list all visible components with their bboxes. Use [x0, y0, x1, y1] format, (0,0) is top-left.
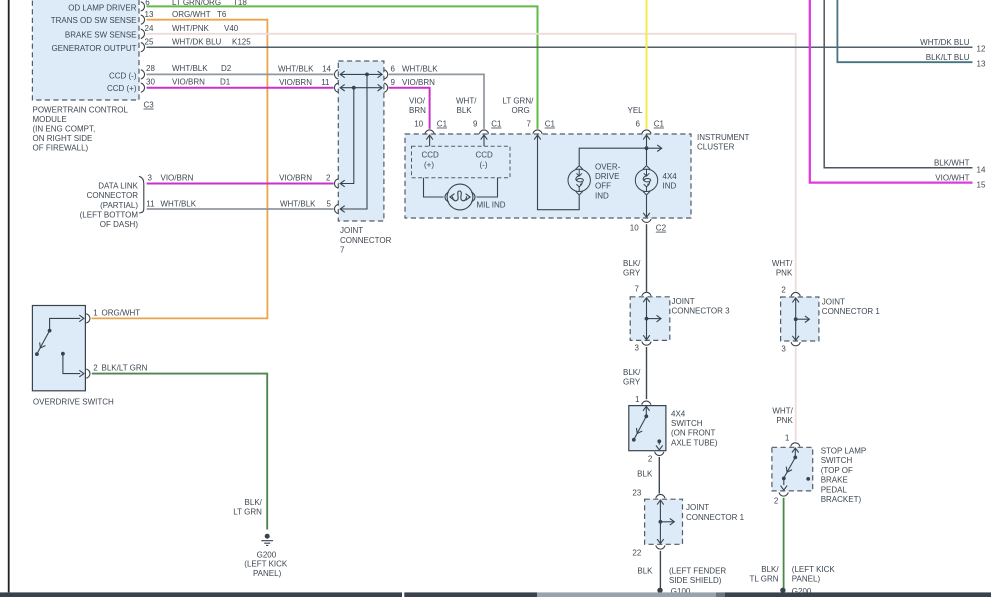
JC1 middle pin 22	[632, 545, 665, 557]
G100 caption	[669, 566, 726, 585]
wire labels row pin 6 LT GRN/ORG T18	[145, 0, 247, 7]
cluster internal lead pin 10 to CCD(+)	[429, 135, 431, 146]
JC3 caption	[672, 297, 731, 316]
wire YEL from top to cluster pin 6	[646, 0, 648, 129]
svg-text:ORG/WHT: ORG/WHT	[172, 10, 211, 19]
svg-text:PNK: PNK	[776, 268, 793, 277]
PCM connector C3 label	[144, 101, 155, 110]
svg-text:14: 14	[322, 64, 331, 73]
svg-text:(LEFT FENDER: (LEFT FENDER	[669, 566, 726, 575]
JC3 internals	[643, 298, 661, 340]
svg-text:SWITCH: SWITCH	[821, 456, 853, 465]
svg-text:C2: C2	[656, 224, 667, 233]
JC3 pin 7	[635, 285, 652, 296]
svg-text:CCD (+): CCD (+)	[107, 84, 137, 93]
cluster internal branch yel node	[579, 145, 662, 165]
svg-text:11: 11	[146, 199, 155, 208]
svg-text:VIO/: VIO/	[409, 96, 426, 105]
wire BLK/GRY cluster to JC3 pin 7	[646, 224, 648, 292]
wire VIO/BRN DLC pin 3 to JC7 pin 2	[147, 183, 334, 185]
svg-text:10: 10	[414, 120, 423, 129]
svg-text:WHT/BLK: WHT/BLK	[402, 64, 438, 73]
wire ORG/WHT from PCM pin 13 to overdrive switch pin 1	[92, 20, 268, 319]
svg-text:OF FIREWALL): OF FIREWALL)	[33, 144, 89, 153]
wire WHT/BLK from PCM pin 28 to joint connector 7 pin 14	[147, 73, 334, 75]
svg-text:6: 6	[636, 120, 641, 129]
wire label BLK/GRY lower	[623, 368, 641, 386]
JC1 right pin 2	[781, 285, 800, 296]
svg-text:WHT/BLK: WHT/BLK	[172, 64, 208, 73]
overdrive switch internals	[35, 315, 84, 377]
svg-text:OF DASH): OF DASH)	[100, 220, 139, 229]
svg-text:BLK: BLK	[637, 566, 653, 575]
wire WHT/PNK from PCM pin 24 to joint connector 1 pin 2	[147, 34, 796, 292]
svg-text:BLK/LT GRN: BLK/LT GRN	[102, 364, 148, 373]
overdrive switch caption	[33, 398, 114, 407]
svg-text:2: 2	[781, 285, 786, 294]
svg-text:OFF: OFF	[595, 182, 611, 191]
JC7 internal bus WHT/BLK pins 14-6	[340, 71, 382, 78]
svg-text:VIO/BRN: VIO/BRN	[279, 78, 312, 87]
svg-text:6: 6	[391, 64, 396, 73]
svg-text:WHT/: WHT/	[456, 96, 477, 105]
svg-text:PEDAL: PEDAL	[821, 485, 848, 494]
svg-text:7: 7	[635, 285, 640, 294]
svg-text:15: 15	[977, 180, 986, 189]
svg-text:CCD: CCD	[476, 151, 494, 160]
svg-text:WHT/DK BLU: WHT/DK BLU	[920, 38, 970, 47]
svg-text:TRANS OD SW SENSE: TRANS OD SW SENSE	[51, 16, 137, 25]
svg-text:22: 22	[632, 548, 641, 557]
wire VIO/BRN JC7 pin 9 to cluster pin 10	[389, 88, 430, 129]
svg-text:VIO/BRN: VIO/BRN	[402, 78, 435, 87]
svg-text:1: 1	[93, 308, 98, 317]
bottom frame bar	[0, 592, 991, 597]
svg-text:CCD: CCD	[422, 151, 440, 160]
svg-text:CONNECTOR 1: CONNECTOR 1	[822, 307, 881, 316]
ground G200 left symbol	[261, 534, 273, 546]
stop lamp switch internals	[781, 448, 811, 490]
JC1 middle pin 23	[632, 489, 665, 499]
svg-text:(LEFT KICK: (LEFT KICK	[792, 565, 836, 574]
svg-text:BLK: BLK	[457, 106, 473, 115]
svg-text:C1: C1	[654, 120, 665, 129]
svg-text:7: 7	[340, 245, 345, 254]
svg-text:(ON FRONT: (ON FRONT	[671, 429, 716, 438]
cluster wire labels above	[409, 96, 426, 115]
svg-text:VIO/BRN: VIO/BRN	[161, 174, 194, 183]
G200 left caption	[244, 550, 288, 578]
svg-text:JOINT: JOINT	[672, 297, 695, 306]
svg-text:T6: T6	[217, 10, 227, 19]
CCD labels	[422, 151, 494, 170]
svg-text:13: 13	[145, 10, 154, 19]
svg-text:4X4: 4X4	[671, 409, 686, 418]
svg-text:(IN ENG COMPT,: (IN ENG COMPT,	[33, 125, 96, 134]
PCM connector cups pins 6,13,24,25,28,30	[141, 2, 145, 92]
wire VIO/BRN from PCM pin 30 to joint connector 7 pin 11	[147, 87, 334, 89]
svg-text:WHT/: WHT/	[772, 259, 793, 268]
cluster internal lead pin 7 to OVERDRIVE OFF IND	[538, 135, 580, 210]
svg-text:TL GRN: TL GRN	[750, 575, 779, 584]
svg-text:POWERTRAIN CONTROL: POWERTRAIN CONTROL	[33, 105, 129, 114]
wire BLK/LT GRN overdrive switch to ground G200	[92, 374, 267, 530]
wire labels row pin 13 ORG/WHT T6	[145, 10, 227, 19]
wire WHT/DK BLU from PCM pin 25 to right edge 12	[147, 46, 973, 48]
wire BLK/LT BLU from top to right edge 13	[837, 0, 972, 62]
svg-text:1: 1	[785, 434, 790, 443]
instrument cluster caption	[697, 133, 750, 152]
4X4 switch internals	[632, 406, 663, 450]
svg-text:G200: G200	[257, 550, 277, 559]
stop lamp switch pin 1	[785, 434, 800, 447]
4x4 ind label	[663, 172, 678, 191]
wire label WHT/PNK lower right	[772, 407, 793, 426]
svg-text:13: 13	[977, 59, 986, 68]
svg-text:MIL IND: MIL IND	[477, 200, 506, 209]
wire labels row pin 30 VIO/BRN D1	[146, 78, 231, 87]
JC7 internal bus VIO/BRN pins 11-9	[340, 84, 382, 91]
svg-text:WHT/BLK: WHT/BLK	[278, 64, 314, 73]
svg-text:GENERATOR OUTPUT: GENERATOR OUTPUT	[51, 44, 136, 53]
svg-text:BLK/WHT: BLK/WHT	[934, 159, 970, 168]
svg-text:JOINT: JOINT	[340, 226, 363, 235]
data link connector caption	[80, 182, 139, 229]
svg-text:BRN: BRN	[409, 106, 426, 115]
svg-text:CONNECTOR 3: CONNECTOR 3	[672, 307, 731, 316]
wire BLK JC1 to ground G100	[659, 551, 661, 588]
wire label BLK	[637, 470, 653, 479]
svg-text:MODULE: MODULE	[33, 115, 67, 124]
svg-text:ORG: ORG	[512, 106, 530, 115]
cluster top pins 10,9,7,6 C1	[414, 120, 664, 140]
JC1 middle caption	[686, 503, 745, 522]
svg-text:WHT/BLK: WHT/BLK	[161, 199, 197, 208]
joint connector 1 right box	[781, 297, 819, 341]
wire labels row pin 24 WHT/PNK V40	[145, 24, 239, 33]
svg-text:BLK/: BLK/	[623, 368, 641, 377]
svg-text:10: 10	[630, 224, 639, 233]
JC7 internal branch to pin 5	[340, 74, 367, 212]
G200 right caption	[792, 565, 836, 584]
svg-text:5: 5	[327, 199, 332, 208]
stop lamp switch pin 2	[774, 492, 788, 505]
ground G100	[657, 587, 691, 596]
joint connector 3 box	[630, 297, 670, 341]
svg-text:BLK/: BLK/	[761, 565, 779, 574]
svg-text:(-): (-)	[480, 161, 488, 170]
svg-text:SWITCH: SWITCH	[671, 419, 703, 428]
JC7 pin labels right	[391, 64, 439, 87]
svg-text:WHT/DK BLU: WHT/DK BLU	[172, 37, 222, 46]
4X4 switch box	[629, 406, 666, 451]
svg-text:23: 23	[632, 489, 641, 498]
svg-text:SIDE SHIELD): SIDE SHIELD)	[669, 576, 722, 585]
svg-text:4X4: 4X4	[663, 172, 678, 181]
PCM: powertrain control module box	[32, 0, 139, 100]
wire BLK/GRY JC3 to 4X4 switch	[646, 347, 648, 399]
wire BLK 4X4 switch to JC1 pin 23	[658, 457, 660, 494]
svg-text:7: 7	[527, 120, 532, 129]
cluster internal lead pin 6 to 4X4 IND	[646, 135, 648, 165]
svg-text:CONNECTOR 1: CONNECTOR 1	[686, 513, 745, 522]
wire labels row pin 28 WHT/BLK D2	[146, 64, 232, 73]
JC7 cups pins 14,11,2,5 left edge	[334, 70, 338, 214]
svg-text:LT GRN: LT GRN	[233, 507, 262, 516]
svg-text:BRAKE: BRAKE	[821, 476, 848, 485]
svg-text:IND: IND	[595, 191, 609, 200]
svg-text:CONNECTOR: CONNECTOR	[340, 236, 392, 245]
DLC wire labels	[148, 174, 332, 183]
svg-text:3: 3	[781, 345, 786, 354]
JC1 middle internals	[657, 500, 674, 544]
svg-text:2: 2	[326, 174, 331, 183]
joint connector 1 middle box	[645, 499, 683, 544]
OVERDRIVE OFF IND lamp	[568, 166, 590, 195]
svg-text:OVER-: OVER-	[595, 162, 621, 171]
ground G200 right	[780, 587, 812, 596]
svg-text:YEL: YEL	[628, 106, 644, 115]
svg-text:C3: C3	[144, 101, 155, 110]
JC1 right caption	[822, 297, 881, 316]
wire VIO/WHT from top to right edge 15	[810, 0, 973, 183]
svg-text:VIO/BRN: VIO/BRN	[172, 78, 205, 87]
svg-text:11: 11	[321, 78, 330, 87]
svg-text:BLK/LT BLU: BLK/LT BLU	[926, 53, 970, 62]
JC7 cups pins 6,9 right edge	[384, 70, 388, 92]
svg-text:BRAKE SW SENSE: BRAKE SW SENSE	[65, 31, 137, 40]
4X4 IND lamp	[635, 166, 657, 195]
right edge wire name labels 12-15	[920, 38, 986, 189]
left frame border	[8, 0, 10, 592]
wire label BLK/TL GRN	[750, 565, 780, 584]
overdrive switch cups pins 1,2	[86, 314, 90, 378]
overdrive off ind label	[595, 162, 621, 200]
svg-text:25: 25	[145, 37, 154, 46]
svg-text:JOINT: JOINT	[686, 503, 709, 512]
svg-text:VIO/WHT: VIO/WHT	[935, 174, 969, 183]
svg-text:WHT/PNK: WHT/PNK	[172, 24, 210, 33]
svg-text:ON RIGHT SIDE: ON RIGHT SIDE	[33, 134, 93, 143]
svg-text:9: 9	[473, 120, 478, 129]
MIL IND label	[477, 200, 506, 209]
wire BLK/WHT from top to right edge 14	[824, 0, 972, 168]
overdrive switch pin labels	[93, 308, 147, 372]
svg-text:INSTRUMENT: INSTRUMENT	[697, 133, 750, 142]
JC1 right internals	[792, 298, 809, 341]
svg-text:ORG/WHT: ORG/WHT	[102, 308, 141, 317]
wire LT GRN/ORG from PCM pin 6 to cluster pin 7	[147, 6, 538, 128]
4X4 switch caption	[671, 409, 718, 447]
svg-text:OD LAMP DRIVER: OD LAMP DRIVER	[68, 4, 137, 13]
instrument cluster box	[405, 134, 691, 218]
svg-text:DATA LINK: DATA LINK	[98, 182, 138, 191]
svg-text:CLUSTER: CLUSTER	[697, 143, 735, 152]
svg-text:WHT/: WHT/	[772, 407, 793, 416]
JC7 caption	[340, 226, 392, 254]
MIL IND lamp leads	[424, 178, 498, 197]
svg-text:28: 28	[146, 64, 155, 73]
svg-text:12: 12	[977, 45, 986, 54]
JC7 pin labels left	[278, 64, 332, 87]
svg-text:BRACKET): BRACKET)	[821, 495, 862, 504]
svg-text:(LEFT BOTTOM: (LEFT BOTTOM	[80, 210, 139, 219]
svg-text:BLK/: BLK/	[623, 259, 641, 268]
CCD sub-box	[412, 146, 511, 178]
svg-text:(PARTIAL): (PARTIAL)	[100, 201, 138, 210]
svg-text:AXLE TUBE): AXLE TUBE)	[671, 438, 718, 447]
svg-text:CONNECTOR: CONNECTOR	[87, 191, 139, 200]
svg-text:9: 9	[391, 78, 396, 87]
svg-text:VIO/BRN: VIO/BRN	[279, 174, 312, 183]
svg-text:(TOP OF: (TOP OF	[821, 466, 853, 475]
JC7 internal branch to pin 2	[340, 88, 354, 187]
JC3 pin 3	[635, 342, 652, 353]
svg-text:K125: K125	[232, 37, 251, 46]
svg-text:STOP LAMP: STOP LAMP	[821, 447, 867, 456]
svg-text:C1: C1	[437, 120, 448, 129]
cluster bottom pin 10 C2	[642, 196, 651, 223]
4X4 switch pin 1	[635, 395, 651, 405]
wire label WHT/PNK upper right	[772, 259, 793, 277]
stop lamp switch caption	[821, 447, 867, 505]
svg-text:14: 14	[977, 166, 986, 175]
svg-text:PNK: PNK	[776, 416, 793, 425]
svg-text:30: 30	[146, 78, 155, 87]
svg-text:IND: IND	[663, 182, 677, 191]
stop lamp switch box	[772, 447, 813, 491]
cluster internal lead pin 9 to CCD(-)	[483, 135, 485, 146]
wire WHT/BLK JC7 pin 6 to cluster pin 9	[389, 74, 484, 128]
JC1 right pin 3	[781, 342, 800, 353]
svg-text:PANEL): PANEL)	[792, 575, 821, 584]
wire WHT/PNK JC1 to stop lamp switch	[795, 348, 797, 442]
PCM pin labels	[51, 4, 137, 93]
svg-text:V40: V40	[224, 24, 239, 33]
overdrive switch box	[32, 306, 85, 391]
svg-text:3: 3	[148, 174, 153, 183]
DLC bracket symbol	[139, 176, 144, 213]
svg-text:PANEL): PANEL)	[253, 569, 282, 578]
joint connector 7 box	[338, 61, 384, 221]
svg-text:DRIVE: DRIVE	[595, 172, 619, 181]
svg-text:BLK/: BLK/	[245, 498, 263, 507]
svg-text:C1: C1	[545, 120, 556, 129]
svg-text:2: 2	[774, 497, 779, 506]
MIL IND lamp	[445, 184, 475, 210]
wire BLK/TL GRN stop lamp switch to ground G200	[783, 498, 785, 588]
wire WHT/BLK DLC pin 11 to JC7 pin 5	[147, 208, 334, 210]
svg-text:LT GRN/: LT GRN/	[503, 96, 535, 105]
svg-text:(LEFT KICK: (LEFT KICK	[244, 559, 288, 568]
svg-text:2: 2	[648, 454, 653, 463]
PCM caption	[33, 105, 129, 152]
svg-text:2: 2	[93, 364, 98, 373]
wire label BLK/LT GRN	[233, 498, 262, 517]
svg-text:D2: D2	[221, 64, 232, 73]
svg-text:OVERDRIVE SWITCH: OVERDRIVE SWITCH	[33, 398, 114, 407]
svg-text:3: 3	[635, 343, 640, 352]
svg-text:24: 24	[145, 24, 154, 33]
svg-text:(+): (+)	[424, 161, 434, 170]
svg-text:CCD (-): CCD (-)	[109, 71, 137, 80]
svg-text:BLK: BLK	[637, 470, 653, 479]
wire labels row pin 25 WHT/DK BLU K125	[145, 37, 252, 46]
svg-text:GRY: GRY	[623, 268, 641, 277]
svg-text:WHT/BLK: WHT/BLK	[280, 199, 316, 208]
wire label BLK/GRY upper	[623, 259, 641, 277]
svg-text:C1: C1	[491, 120, 502, 129]
svg-text:JOINT: JOINT	[822, 297, 845, 306]
svg-text:GRY: GRY	[623, 377, 641, 386]
svg-text:1: 1	[635, 395, 640, 404]
svg-text:D1: D1	[220, 78, 231, 87]
wire label BLK lower	[637, 566, 653, 575]
4X4 switch pin 2	[648, 452, 664, 464]
